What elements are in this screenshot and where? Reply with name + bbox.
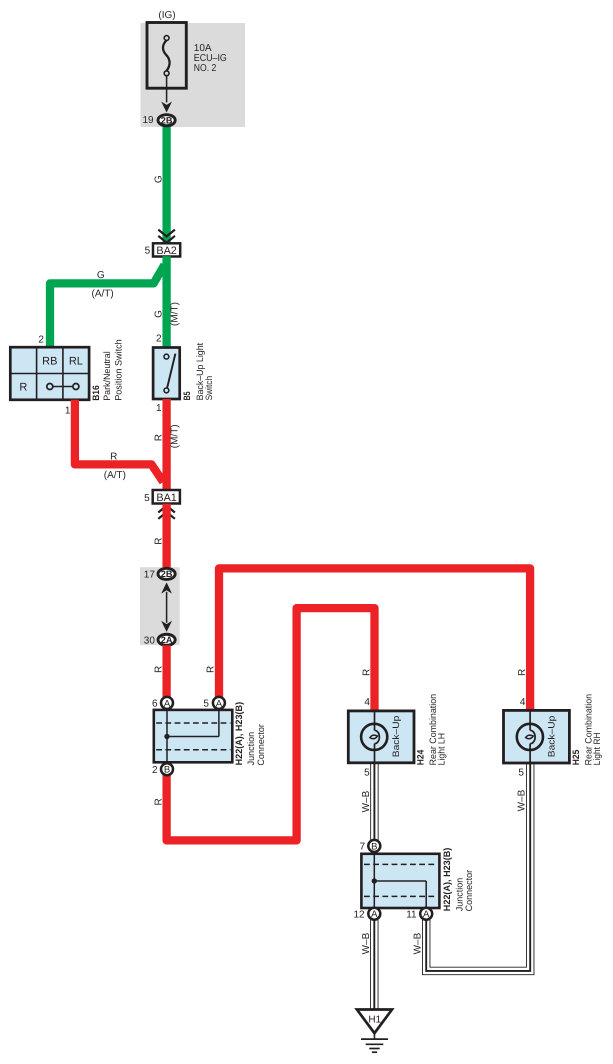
svg-text:G: G	[153, 175, 164, 183]
wire W-B: H25 to junction pin 11	[426, 762, 530, 971]
svg-text:R: R	[154, 434, 165, 441]
svg-text:5: 5	[144, 493, 150, 504]
power source gray block	[141, 23, 246, 127]
wire R: junction pin 5 to H25	[219, 568, 530, 711]
svg-text:A: A	[371, 909, 378, 920]
wire R: BA1 down to ECU block	[162, 504, 170, 570]
junction connector H22(A),H23(B) lower body	[361, 854, 439, 908]
bulb H24 back-up	[361, 724, 387, 750]
svg-text:Junction: Junction	[246, 732, 256, 766]
svg-text:H22(A), H23(B): H22(A), H23(B)	[442, 848, 452, 912]
svg-text:W–B: W–B	[412, 932, 423, 954]
svg-text:A: A	[423, 909, 430, 920]
svg-text:12: 12	[353, 909, 365, 920]
svg-text:BA2: BA2	[156, 245, 176, 257]
ground hatch	[361, 1038, 388, 1040]
svg-text:RB: RB	[42, 355, 57, 367]
wire R: B5 to BA1	[162, 399, 170, 490]
svg-text:B16: B16	[91, 385, 101, 401]
connector oval 2A pin 30	[158, 634, 175, 645]
pin 12 circle A	[368, 908, 380, 920]
svg-text:H24: H24	[416, 749, 426, 765]
svg-text:Junction: Junction	[454, 878, 464, 912]
arrow into ECU connector	[161, 102, 172, 113]
wire G: BA2 to B5 (M/T)	[162, 256, 170, 347]
wire G: A/T branch to B16	[50, 265, 164, 348]
B16 switch contact	[50, 386, 76, 388]
svg-text:R: R	[154, 798, 165, 805]
fuse 10A ECU-IG NO.2 body	[147, 23, 186, 89]
svg-text:Light LH: Light LH	[437, 733, 447, 766]
svg-text:R: R	[154, 666, 165, 673]
lamp H25 body	[504, 710, 570, 763]
connector oval 2B pin 17	[158, 568, 175, 579]
svg-text:H25: H25	[571, 750, 581, 766]
svg-text:R: R	[517, 669, 528, 676]
svg-text:2: 2	[38, 335, 44, 346]
svg-text:B5: B5	[182, 391, 192, 400]
svg-text:Switch: Switch	[204, 376, 214, 401]
svg-text:R: R	[110, 452, 117, 463]
junction dot	[164, 734, 169, 739]
svg-text:R: R	[206, 666, 217, 673]
svg-text:2B: 2B	[161, 569, 173, 579]
junction block BA1	[153, 490, 180, 504]
svg-text:5: 5	[203, 699, 209, 710]
bulb H25 back-up	[517, 724, 543, 750]
internal arrow down	[161, 621, 172, 632]
svg-text:R: R	[154, 537, 165, 544]
svg-text:W–B: W–B	[516, 789, 527, 811]
svg-text:4: 4	[364, 697, 370, 708]
connector BA1 chevrons	[158, 506, 175, 519]
svg-text:H22(A), H23(B): H22(A), H23(B)	[234, 702, 244, 766]
wire W-B: junction pin 12 to ground	[370, 919, 378, 1010]
svg-text:A: A	[216, 698, 223, 709]
svg-text:R: R	[361, 669, 372, 676]
wire G: fuse to BA2	[162, 121, 170, 244]
pin 6 circle A	[161, 697, 173, 709]
wire R: A/T branch from B16	[75, 400, 163, 482]
svg-text:(M/T): (M/T)	[169, 302, 180, 326]
switch B5 body	[153, 348, 180, 400]
svg-text:Light RH: Light RH	[592, 732, 602, 765]
pin 2 circle B	[161, 763, 173, 775]
svg-text:Connector: Connector	[464, 870, 474, 912]
svg-text:A: A	[164, 698, 171, 709]
svg-text:(M/T): (M/T)	[169, 424, 180, 448]
svg-text:G: G	[97, 270, 105, 281]
svg-text:(A/T): (A/T)	[104, 470, 126, 481]
svg-text:2B: 2B	[161, 116, 173, 126]
internal link line	[166, 592, 168, 623]
fuse element	[163, 40, 170, 71]
svg-text:B: B	[164, 765, 170, 776]
svg-text:5: 5	[145, 245, 151, 256]
svg-text:NO. 2: NO. 2	[194, 63, 217, 74]
svg-text:G: G	[154, 310, 165, 318]
ECU gray block	[140, 567, 180, 645]
svg-text:(A/T): (A/T)	[91, 289, 113, 300]
junction connector H22(A),H23(B) upper body	[154, 710, 233, 762]
wire R: junction pin 2 to H24	[167, 608, 375, 840]
svg-text:R: R	[19, 382, 27, 394]
connector BA2 chevrons	[158, 230, 175, 243]
fuse output lead	[166, 76, 168, 103]
junction block BA2	[153, 243, 180, 256]
wire W-B: H24 to junction pin 7	[370, 761, 378, 842]
svg-text:W–B: W–B	[361, 790, 372, 812]
wire R: 2A to junction connector pin 6	[162, 645, 170, 702]
svg-text:2A: 2A	[161, 635, 173, 645]
svg-text:H1: H1	[368, 1014, 381, 1025]
svg-text:17: 17	[144, 570, 156, 581]
pin 11 circle A	[420, 908, 432, 920]
svg-text:Position Switch: Position Switch	[113, 339, 123, 401]
connector oval 2B pin 19	[158, 115, 175, 126]
svg-text:5: 5	[518, 768, 524, 779]
switch B16 body	[10, 347, 89, 400]
svg-text:7: 7	[359, 842, 365, 853]
svg-text:Back–Up: Back–Up	[547, 716, 557, 758]
svg-text:1: 1	[156, 403, 162, 414]
svg-text:(IG): (IG)	[158, 10, 175, 21]
svg-text:6: 6	[152, 699, 158, 710]
svg-text:2: 2	[152, 765, 158, 776]
svg-text:4: 4	[520, 697, 526, 708]
internal arrow up	[161, 582, 172, 593]
svg-text:Park/Neutral: Park/Neutral	[102, 351, 112, 401]
pin 7 circle B	[368, 840, 380, 852]
svg-text:BA1: BA1	[156, 492, 176, 504]
ground stem	[373, 1033, 375, 1039]
ground H1	[357, 1010, 392, 1034]
svg-text:B: B	[371, 841, 377, 852]
svg-text:11: 11	[406, 909, 417, 920]
svg-text:Back–Up: Back–Up	[391, 716, 401, 758]
svg-text:RL: RL	[69, 355, 83, 367]
pin 5 circle A	[213, 697, 225, 709]
svg-text:19: 19	[142, 115, 154, 126]
lamp H24 body	[348, 711, 414, 763]
junction dot	[372, 878, 377, 883]
svg-text:W–B: W–B	[361, 932, 372, 954]
svg-text:Connector: Connector	[256, 724, 266, 766]
svg-text:2: 2	[156, 333, 162, 344]
svg-text:30: 30	[144, 635, 156, 646]
svg-text:5: 5	[364, 768, 370, 779]
svg-text:1: 1	[65, 405, 71, 416]
